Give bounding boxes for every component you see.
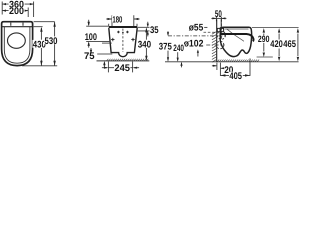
label diameter 102 xyxy=(183,38,204,56)
svg-text:405: 405 xyxy=(229,71,242,82)
inlet pipe edge above box xyxy=(220,19,222,28)
dimension 245 xyxy=(102,62,139,75)
dimension 240 xyxy=(173,43,185,67)
dimension 290 xyxy=(258,28,270,57)
inlet dashed vertical centerline xyxy=(220,19,222,40)
side floor hatching xyxy=(217,60,259,62)
svg-text:100: 100 xyxy=(85,32,97,43)
svg-text:200: 200 xyxy=(9,6,24,17)
rear floor line xyxy=(97,60,150,62)
svg-text:75: 75 xyxy=(84,51,95,62)
rear floor hatching xyxy=(107,59,149,61)
rear upper inlet marks xyxy=(117,31,129,34)
dimension 430 xyxy=(32,27,46,66)
plan fixing hole marks xyxy=(11,23,23,26)
rear center dashed line xyxy=(122,29,124,52)
svg-text:240: 240 xyxy=(173,43,184,53)
dashed circle diameter 55 xyxy=(217,31,225,39)
svg-text:465: 465 xyxy=(283,39,296,50)
side floor line xyxy=(165,61,299,63)
dimension 420 xyxy=(270,28,283,61)
svg-text:50: 50 xyxy=(215,9,222,20)
svg-text:340: 340 xyxy=(138,39,152,50)
wall line xyxy=(216,19,218,62)
svg-text:ø55: ø55 xyxy=(189,23,204,34)
dimension 405 xyxy=(220,58,250,82)
svg-text:420: 420 xyxy=(270,39,283,50)
rear body top edge xyxy=(109,26,138,28)
svg-text:245: 245 xyxy=(114,63,130,74)
dimension 50 xyxy=(211,9,226,22)
seat profile thick line xyxy=(220,34,254,41)
label diameter 55 xyxy=(188,23,218,34)
dimension 180 xyxy=(106,14,139,26)
svg-text:375: 375 xyxy=(159,41,173,52)
wall hatching xyxy=(212,32,217,63)
inlet connector box xyxy=(217,28,223,31)
dashed circle diameter 102 xyxy=(216,41,224,49)
rear body top extension ticks xyxy=(109,24,137,26)
svg-text:180: 180 xyxy=(112,14,122,24)
dashed centerline inlet height xyxy=(168,35,227,37)
plan cistern band line xyxy=(2,26,33,28)
lid lower edge thin line xyxy=(225,28,249,30)
svg-text:ø102: ø102 xyxy=(184,38,204,49)
dimension 375 xyxy=(158,31,172,62)
dashed centerline outlet height xyxy=(181,44,225,46)
svg-text:35: 35 xyxy=(150,25,159,36)
plan bowl oval xyxy=(8,33,26,48)
dimension 100 xyxy=(85,20,111,48)
extension line left shared xyxy=(2,2,33,18)
extension lines right of plan xyxy=(22,22,57,66)
dimension 20 xyxy=(212,63,234,77)
svg-text:290: 290 xyxy=(258,34,270,44)
bowl bottom extension line xyxy=(257,56,273,58)
dimension 35 arrows xyxy=(147,22,159,37)
svg-text:530: 530 xyxy=(45,36,58,47)
dimension 35 extension lines xyxy=(137,27,150,31)
rear body outline xyxy=(109,28,137,57)
toilet side profile xyxy=(220,27,251,56)
dimension 465 xyxy=(283,28,299,61)
dimension 200 xyxy=(2,6,28,17)
dimension 360 xyxy=(2,0,33,11)
bowl interior curve xyxy=(227,29,244,42)
dimension 530 xyxy=(44,22,58,66)
dimension 75 xyxy=(84,43,112,67)
dimension 340 xyxy=(137,27,151,60)
plan seat inner outline xyxy=(4,27,30,64)
plan outer outline xyxy=(2,22,33,66)
rear fixing hole crosses xyxy=(111,38,135,41)
top extension line xyxy=(252,27,299,29)
